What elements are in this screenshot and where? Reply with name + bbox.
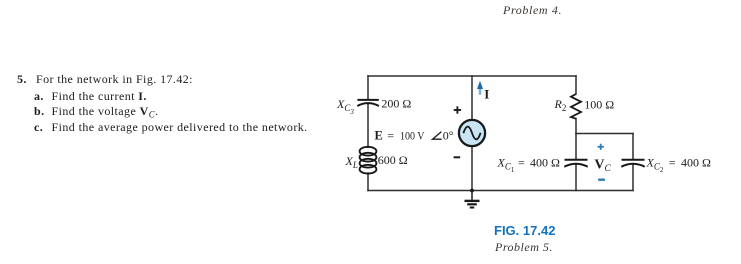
svg-text:XC1: XC1 xyxy=(497,155,515,174)
svg-text:XL: XL xyxy=(345,154,358,170)
svg-text:=: = xyxy=(669,155,676,169)
item c xyxy=(34,120,43,135)
svg-text:XC2: XC2 xyxy=(646,155,664,174)
node: junction at ground xyxy=(470,189,474,193)
current arrow I xyxy=(477,81,483,95)
problem statement line 5. xyxy=(17,72,27,87)
polarity - of source xyxy=(454,156,461,158)
capacitor XC2 xyxy=(621,160,644,167)
wire: middle branch above source xyxy=(471,76,473,120)
svg-text:100 V: 100 V xyxy=(400,128,425,142)
wire: right branch below XC1 xyxy=(575,165,577,191)
wire: left branch between XC3 and XL xyxy=(367,104,369,148)
item a xyxy=(34,89,44,104)
svg-text:VC: VC xyxy=(594,157,611,174)
wire: right branch above R2 xyxy=(575,76,577,94)
svg-text:R2: R2 xyxy=(554,97,567,113)
capacitor XC1 xyxy=(564,160,587,167)
svg-text:0°: 0° xyxy=(443,128,454,142)
resistor R2 xyxy=(571,94,581,119)
svg-text:600 Ω: 600 Ω xyxy=(378,153,408,167)
wire: right branch between node and XC1 xyxy=(575,134,577,159)
wire: XC2 branch above capacitor xyxy=(632,134,634,159)
ground xyxy=(465,191,480,208)
svg-text:200 Ω: 200 Ω xyxy=(381,97,411,111)
svg-text:=: = xyxy=(518,155,525,169)
figure caption Problem 5. xyxy=(495,240,553,255)
inductor XL xyxy=(360,147,377,174)
wire: middle branch below source xyxy=(471,146,473,191)
wire: bottom side of loop xyxy=(368,190,633,192)
svg-text:I: I xyxy=(484,86,489,101)
svg-text:E: E xyxy=(375,128,383,142)
wire: left branch below XL xyxy=(367,173,369,191)
figure caption FIG. 17.42 xyxy=(494,223,555,238)
svg-text:100 Ω: 100 Ω xyxy=(584,98,614,112)
svg-text:=: = xyxy=(387,128,394,142)
wire: right branch R2 to inner node xyxy=(575,119,577,134)
capacitor XC3 xyxy=(357,100,379,106)
source E (AC) xyxy=(459,120,485,146)
wire: inner top wire to XC2 branch xyxy=(576,133,633,135)
svg-text:XC3: XC3 xyxy=(336,97,354,116)
wire: top side of outer loop xyxy=(368,75,576,77)
polarity - of VC xyxy=(598,178,605,180)
polarity + of VC xyxy=(598,144,604,150)
angle symbol xyxy=(433,132,442,139)
wire: XC2 branch below capacitor xyxy=(632,165,634,191)
wire: left branch above XC3 xyxy=(367,76,369,98)
item b xyxy=(34,104,45,119)
svg-text:400 Ω: 400 Ω xyxy=(530,155,560,169)
polarity + of source xyxy=(454,106,461,113)
caption: Problem 4. (top) xyxy=(503,3,562,18)
svg-text:400 Ω: 400 Ω xyxy=(681,155,711,169)
